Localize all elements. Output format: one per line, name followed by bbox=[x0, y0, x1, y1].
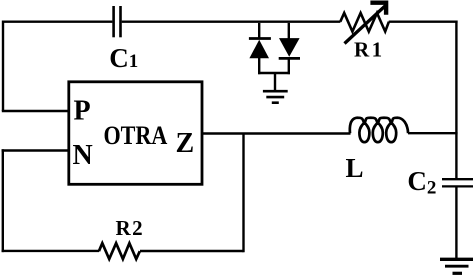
wire: P input bbox=[2, 110, 69, 112]
diode D1 triangle (pointing up) bbox=[249, 40, 269, 58]
wire: left rail lower bbox=[2, 149, 4, 252]
wire: N input bbox=[2, 149, 69, 151]
svg-text:C1: C1 bbox=[109, 43, 138, 73]
wire: bottom rail right bbox=[140, 250, 244, 252]
wire: left rail upper bbox=[2, 21, 4, 112]
capacitor C2 plates bbox=[442, 179, 473, 186]
wire: top rail right segment bbox=[389, 21, 458, 23]
wire: bottom rail left bbox=[2, 250, 99, 252]
resistor R1 arrowhead bbox=[370, 3, 386, 15]
svg-text:C2: C2 bbox=[407, 166, 436, 199]
diode D1 cathode bar bbox=[249, 37, 271, 40]
svg-text:Z: Z bbox=[176, 128, 195, 159]
diode D2 cathode bar bbox=[279, 57, 300, 60]
svg-text:R1: R1 bbox=[354, 38, 385, 62]
inductor L bbox=[350, 118, 408, 143]
capacitor C1 bbox=[114, 6, 121, 37]
wire: middle ground stem bbox=[274, 73, 276, 91]
wire: top rail left segment bbox=[3, 21, 112, 23]
svg-text:OTRA: OTRA bbox=[104, 122, 168, 150]
resistor R1 arrow shaft bbox=[345, 6, 386, 44]
svg-text:N: N bbox=[73, 140, 93, 171]
wire: Z output bbox=[202, 132, 351, 134]
svg-text:P: P bbox=[74, 96, 91, 127]
wire: right rail upper bbox=[455, 21, 457, 179]
diode D2 upper stem bbox=[288, 23, 290, 39]
diode D2 triangle (pointing down) bbox=[279, 38, 300, 57]
resistor R2 zigzag bbox=[99, 243, 140, 259]
svg-text:R2: R2 bbox=[116, 216, 145, 240]
op-amp box OTRA U1 bbox=[69, 82, 202, 185]
diode D1 lower stem bbox=[258, 58, 260, 75]
diode D2 lower stem bbox=[288, 60, 290, 75]
wire: inductor to right rail bbox=[408, 132, 458, 134]
wire: diode pair join bbox=[258, 72, 290, 74]
resistor R1 (variable) zigzag bbox=[340, 13, 389, 32]
svg-text:L: L bbox=[346, 153, 364, 183]
wire: feedback branch (Z to bottom rail) bbox=[242, 134, 244, 253]
ground (middle) bbox=[263, 91, 288, 103]
diode D1 upper stem bbox=[258, 23, 260, 38]
ground (right) bbox=[440, 259, 473, 273]
wire: top rail middle bbox=[122, 21, 341, 23]
wire: right rail lower bbox=[455, 188, 457, 259]
